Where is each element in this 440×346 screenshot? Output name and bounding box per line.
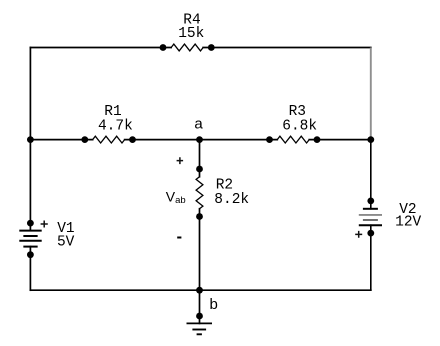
svg-text:4.7k: 4.7k [98, 118, 133, 134]
svg-text:5V: 5V [57, 234, 75, 250]
svg-text:8.2k: 8.2k [214, 192, 249, 208]
svg-text:6.8k: 6.8k [282, 118, 317, 134]
svg-text:12V: 12V [395, 215, 421, 231]
svg-text:15k: 15k [178, 26, 204, 42]
svg-text:b: b [210, 296, 218, 313]
svg-text:a: a [194, 116, 203, 133]
